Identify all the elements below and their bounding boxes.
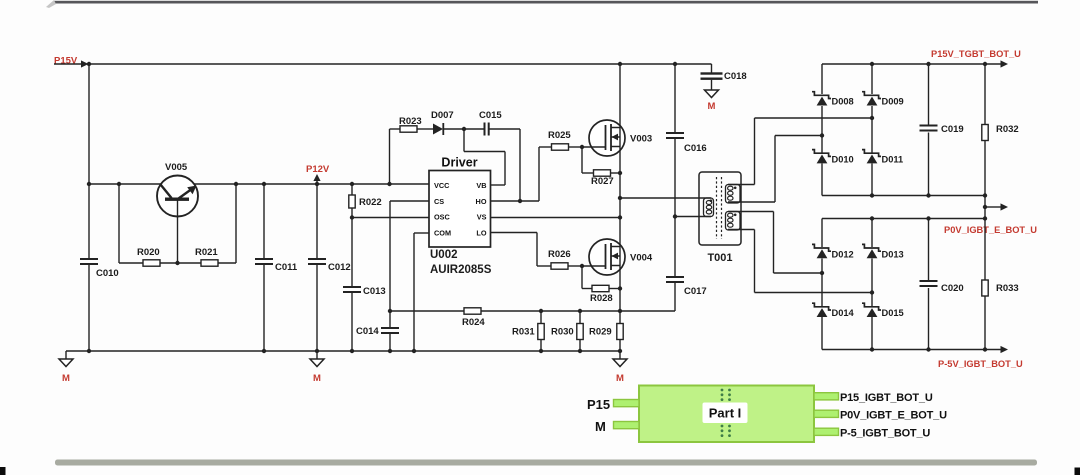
junction gnd x390 xyxy=(388,349,392,353)
svg-text:HO: HO xyxy=(476,197,487,206)
resistor R021 xyxy=(201,260,218,266)
svg-text:P0V_IGBT_E_BOT_U: P0V_IGBT_E_BOT_U xyxy=(840,410,947,422)
capacitor C019 xyxy=(928,64,930,125)
wire HO xyxy=(491,200,540,202)
wire D008 column xyxy=(821,64,823,94)
pin P0V_IGBT_E_BOT_U right xyxy=(814,410,839,417)
wire R021 row right xyxy=(218,262,236,264)
capacitor C015 xyxy=(484,123,486,136)
wire R029 bottom xyxy=(619,340,621,352)
wire upper bridge bottom xyxy=(822,195,985,197)
wire top P15V rail xyxy=(89,63,712,65)
diode D008 xyxy=(812,92,831,99)
wire C016 column xyxy=(674,64,676,132)
svg-text:C014: C014 xyxy=(356,326,379,337)
wire V003 drain/source column xyxy=(619,64,621,324)
junction gnd x580 xyxy=(578,349,582,353)
svg-text:VCC: VCC xyxy=(434,181,450,190)
wire D007-C015 xyxy=(443,128,483,130)
junction primary bottom node xyxy=(673,214,677,218)
svg-text:V004: V004 xyxy=(630,253,653,264)
wire C015 to HO drop xyxy=(519,129,521,201)
wire R022 bottom xyxy=(351,208,353,218)
junction gnd x414 xyxy=(412,349,416,353)
diode D011 xyxy=(862,150,881,157)
wire secondary lower top xyxy=(728,211,774,213)
svg-text:R022: R022 xyxy=(359,197,382,208)
svg-text:M: M xyxy=(616,373,624,384)
pin P15_IGBT_BOT_U right xyxy=(814,393,839,400)
junction rail x872 xyxy=(870,62,874,66)
wire R020 row xyxy=(119,262,143,264)
junction CS/R024 node xyxy=(388,309,392,313)
ground mid M xyxy=(316,351,318,359)
wire HO riser xyxy=(538,147,540,201)
junction gate V004 xyxy=(580,264,584,268)
wire VCC riser xyxy=(389,129,391,184)
junction gnd x317 xyxy=(315,349,319,353)
ground below C018 xyxy=(705,90,719,98)
bottom gray bar xyxy=(55,460,1037,466)
wire C013 drop xyxy=(351,218,353,287)
resistor R023 xyxy=(400,126,417,132)
wire LO xyxy=(491,232,538,234)
diode D010 xyxy=(812,150,831,157)
svg-text:D011: D011 xyxy=(882,155,904,165)
svg-text:R028: R028 xyxy=(590,293,613,304)
svg-text:R031: R031 xyxy=(512,327,535,338)
resistor R032 xyxy=(984,64,986,125)
junction x928 y195 xyxy=(926,193,930,197)
svg-text:C012: C012 xyxy=(328,262,351,273)
transistor V005 xyxy=(157,176,198,217)
pin P15 left xyxy=(614,400,640,407)
junction x928 y218 xyxy=(926,216,930,220)
svg-text:Part I: Part I xyxy=(709,406,742,421)
svg-text:C013: C013 xyxy=(363,286,386,297)
junction gnd x352 xyxy=(350,349,354,353)
junction D009-D011 xyxy=(870,116,874,120)
wire mid rail right of V005 xyxy=(194,183,429,185)
wire D009 column xyxy=(871,64,873,94)
wire C015 right xyxy=(490,128,521,130)
junction rail x317 xyxy=(315,182,319,186)
wire R022 top stub xyxy=(351,184,353,195)
wire LO riser xyxy=(536,233,538,267)
wire lower bridge top xyxy=(822,218,985,220)
wire secondary upper top xyxy=(728,184,755,186)
svg-text:M: M xyxy=(708,101,716,112)
capacitor C018 xyxy=(701,72,723,74)
junction x620 rail xyxy=(618,62,622,66)
junction x620 R028 xyxy=(618,286,622,290)
wire secondary upper bottom xyxy=(728,201,775,203)
bottom-left corner black square xyxy=(0,467,6,475)
svg-text:D010: D010 xyxy=(832,155,854,165)
capacitor C010 xyxy=(80,258,98,260)
wire C018 drop xyxy=(711,64,713,73)
svg-text:P15: P15 xyxy=(587,397,610,412)
svg-text:VS: VS xyxy=(477,213,487,222)
resistor R024 xyxy=(464,308,481,314)
block Part I xyxy=(639,386,814,443)
wire secondary lower bottom xyxy=(728,229,755,231)
junction D008-D010 xyxy=(820,133,824,137)
svg-text:D013: D013 xyxy=(882,250,904,260)
junction OSC node xyxy=(350,215,354,219)
label Part I xyxy=(703,403,748,424)
ground left M xyxy=(65,351,67,359)
connector dots upper xyxy=(721,389,724,392)
svg-text:C017: C017 xyxy=(684,286,707,297)
svg-text:P0V_IGBT_E_BOT_U: P0V_IGBT_E_BOT_U xyxy=(944,225,1037,235)
svg-text:C020: C020 xyxy=(941,283,964,294)
svg-text:LO: LO xyxy=(476,229,486,238)
junction emitter row xyxy=(175,261,179,265)
resistor R027 xyxy=(594,170,611,176)
junction rail x352 xyxy=(350,182,354,186)
bottom-right corner black square xyxy=(1075,468,1080,475)
resistor R033 xyxy=(984,219,986,281)
capacitor C012 xyxy=(308,258,326,260)
svg-text:OSC: OSC xyxy=(434,213,451,222)
wire COM vertical xyxy=(413,233,415,351)
diode D015 xyxy=(862,303,881,310)
junction gnd x541 xyxy=(539,349,543,353)
wire C017 to R024 line xyxy=(620,310,675,312)
svg-text:CS: CS xyxy=(434,197,444,206)
svg-text:P12V: P12V xyxy=(306,164,330,175)
resistor R026 xyxy=(551,263,568,269)
svg-text:C015: C015 xyxy=(479,110,502,121)
svg-text:C016: C016 xyxy=(684,143,707,154)
junction gnd x89 xyxy=(87,349,91,353)
junction gnd x264 xyxy=(262,349,266,353)
wire R024 line xyxy=(390,310,464,312)
resistor R025 xyxy=(552,144,569,150)
wire P0V column xyxy=(984,196,986,219)
wire R025 to gate xyxy=(569,146,583,148)
junction P0V xyxy=(983,205,987,209)
svg-text:D014: D014 xyxy=(832,308,855,318)
capacitor C014 xyxy=(381,327,399,329)
junction x872 y195 xyxy=(870,193,874,197)
wire COM to driver xyxy=(414,232,429,234)
wire R028 right xyxy=(609,288,620,290)
svg-text:R032: R032 xyxy=(996,124,1019,135)
wire C012 drop xyxy=(316,184,318,258)
wire VS xyxy=(491,217,621,219)
wire bottom right rail xyxy=(822,349,1001,351)
svg-text:R025: R025 xyxy=(548,130,571,141)
pin P-5_IGBT_BOT_U right xyxy=(814,428,839,435)
node P15V entry arrow xyxy=(54,63,82,65)
junction x620 R024 line xyxy=(618,309,622,313)
wire VB jog xyxy=(463,129,465,152)
wire R023 lead xyxy=(390,128,403,130)
svg-text:D007: D007 xyxy=(431,110,454,121)
svg-text:C010: C010 xyxy=(96,268,119,279)
wire C017 column xyxy=(674,217,676,277)
wire V005 emitter drop xyxy=(177,200,179,263)
junction gnd x620 xyxy=(618,349,622,353)
svg-text:D008: D008 xyxy=(832,97,854,107)
wire primary top xyxy=(620,197,711,199)
wire gate V003 xyxy=(582,146,606,148)
junction x928 y349 xyxy=(926,347,930,351)
junction rail x928 xyxy=(926,62,930,66)
junction rail x390 VCC xyxy=(387,182,391,186)
wire primary bottom xyxy=(675,216,711,218)
junction x620 VS xyxy=(618,215,622,219)
svg-text:R029: R029 xyxy=(589,327,612,338)
wire OSC to driver xyxy=(352,217,429,219)
junction D013-D015 xyxy=(870,290,874,294)
diode D009 xyxy=(862,92,881,99)
diode D013 xyxy=(862,244,881,251)
svg-text:COM: COM xyxy=(434,229,451,238)
capacitor C017 xyxy=(666,276,684,278)
svg-text:D012: D012 xyxy=(832,250,854,260)
resistor R020 xyxy=(143,260,160,266)
capacitor C016 xyxy=(666,132,684,134)
wire top right rail xyxy=(822,63,1001,65)
junction C016 rail xyxy=(673,62,677,66)
resistor R022 xyxy=(349,195,355,208)
svg-text:AUIR2085S: AUIR2085S xyxy=(430,264,492,276)
wire R020 row left riser xyxy=(118,184,120,263)
transistor V003 xyxy=(589,120,625,156)
svg-text:M: M xyxy=(595,419,606,434)
diode D012 xyxy=(812,244,831,251)
pin M left xyxy=(614,422,640,429)
capacitor C011 xyxy=(255,258,273,260)
connector dots lower xyxy=(721,425,724,428)
svg-text:P-5_IGBT_BOT_U: P-5_IGBT_BOT_U xyxy=(840,428,930,440)
wire left vertical from P15V xyxy=(88,64,90,258)
wire R027 drop xyxy=(581,147,583,173)
svg-text:P15V: P15V xyxy=(54,56,78,67)
svg-text:C018: C018 xyxy=(724,71,747,82)
wire R028 drop xyxy=(581,266,583,289)
svg-text:D009: D009 xyxy=(882,97,904,107)
svg-text:R020: R020 xyxy=(137,247,160,258)
junction x985 y349 xyxy=(983,347,987,351)
svg-text:V005: V005 xyxy=(165,162,188,173)
svg-text:C019: C019 xyxy=(941,124,964,135)
wire gate V004 xyxy=(582,265,606,267)
wire R027 right xyxy=(611,172,621,174)
junction x620 R027 xyxy=(618,171,622,175)
wire ground rail xyxy=(66,350,620,352)
ground right M xyxy=(619,351,621,359)
junction D007/C015 node xyxy=(462,127,466,131)
resistor R031 xyxy=(540,311,542,324)
junction rail x236 xyxy=(234,182,238,186)
junction x872 y218 xyxy=(870,216,874,220)
svg-text:R021: R021 xyxy=(195,247,218,258)
svg-text:P-5V_IGBT_BOT_U: P-5V_IGBT_BOT_U xyxy=(938,359,1023,369)
wire R026 to gate xyxy=(568,265,582,267)
junction x985 y195 xyxy=(983,193,987,197)
svg-text:U002: U002 xyxy=(430,249,458,261)
junction P15V rail xyxy=(87,62,91,66)
wire D013 column xyxy=(871,219,873,248)
junction rail x264 xyxy=(262,182,266,186)
junction x620 primary top xyxy=(618,196,622,200)
junction mid rail at x119 xyxy=(117,182,121,186)
svg-text:P15_IGBT_BOT_U: P15_IGBT_BOT_U xyxy=(840,392,933,404)
wire D012 column xyxy=(821,219,823,248)
svg-text:D015: D015 xyxy=(882,308,904,318)
svg-text:R026: R026 xyxy=(548,249,571,260)
junction R031 top xyxy=(539,309,543,313)
junction R030 top xyxy=(578,309,582,313)
svg-text:R023: R023 xyxy=(399,116,422,127)
svg-text:T001: T001 xyxy=(707,252,732,264)
wire CS vertical xyxy=(389,201,391,327)
svg-text:R033: R033 xyxy=(996,283,1019,294)
svg-text:VB: VB xyxy=(476,181,486,190)
resistor R030 xyxy=(579,311,581,324)
wire R023-D007 xyxy=(417,128,433,130)
junction x872 y349 xyxy=(870,347,874,351)
diode D007 xyxy=(433,124,443,135)
junction D012-D014 xyxy=(820,271,824,275)
svg-text:P15V_TGBT_BOT_U: P15V_TGBT_BOT_U xyxy=(931,49,1021,59)
junction gate V003 xyxy=(580,145,584,149)
wire C011 drop xyxy=(263,184,265,258)
diode D014 xyxy=(812,303,831,310)
transformer T001 xyxy=(699,172,741,245)
resistor R028 xyxy=(592,285,609,291)
svg-text:Driver: Driver xyxy=(441,156,477,170)
capacitor C020 xyxy=(928,219,930,281)
wire CS to driver xyxy=(390,200,429,202)
wire R021 row right riser xyxy=(235,184,237,263)
op-amp U002 driver box xyxy=(429,171,491,248)
resistor R029 xyxy=(617,324,623,340)
svg-text:R030: R030 xyxy=(551,327,574,338)
svg-text:R024: R024 xyxy=(462,317,485,328)
wire R020-R021 xyxy=(160,262,201,264)
svg-text:C011: C011 xyxy=(275,262,298,273)
junction x985 y218 xyxy=(983,216,987,220)
svg-text:M: M xyxy=(313,373,321,384)
capacitor C013 xyxy=(343,286,361,288)
top border line xyxy=(54,1,1038,4)
junction mid rail at x89 xyxy=(87,182,91,186)
transistor V004 xyxy=(589,239,625,275)
junction rail x985 xyxy=(983,62,987,66)
wire mid rail left xyxy=(89,183,161,185)
svg-text:M: M xyxy=(62,373,70,384)
wire P0V arrow xyxy=(985,206,1001,208)
svg-text:V003: V003 xyxy=(630,134,652,145)
node P12V arrow xyxy=(316,180,318,184)
svg-text:R027: R027 xyxy=(591,176,614,187)
junction HO node xyxy=(518,199,522,203)
